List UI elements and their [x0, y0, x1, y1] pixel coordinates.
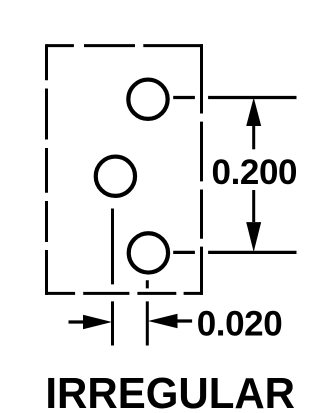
- vertical dimension line 0.200 upper stem: [252, 126, 255, 149]
- vertical dimension line 0.200 lower stem: [252, 190, 255, 222]
- hole circle bottom: [129, 233, 168, 272]
- hole circle middle: [96, 157, 135, 196]
- vertical dimension arrowhead up: [246, 98, 261, 127]
- horizontal dimension left arrow tail: [69, 320, 86, 323]
- leader line from bottom hole: [173, 251, 296, 254]
- horizontal dimension right arrow tail: [176, 319, 192, 322]
- vertical dimension arrowhead down: [246, 222, 261, 252]
- dashed outline left edge: [45, 44, 48, 295]
- extension line below bottom hole: [146, 280, 149, 345]
- extension line below middle hole: [111, 209, 114, 346]
- svg-text:0.200: 0.200: [212, 153, 298, 192]
- dashed outline bottom edge: [45, 292, 203, 295]
- horizontal dimension left arrowhead: [83, 315, 112, 329]
- svg-text:0.020: 0.020: [197, 304, 283, 343]
- hole circle top: [128, 80, 167, 119]
- svg-text:IRREGULAR: IRREGULAR: [45, 370, 295, 413]
- dashed outline top edge: [46, 44, 203, 47]
- horizontal dimension right arrowhead: [148, 314, 178, 328]
- dashed outline right edge: [200, 44, 203, 295]
- leader line from top hole: [173, 96, 296, 99]
